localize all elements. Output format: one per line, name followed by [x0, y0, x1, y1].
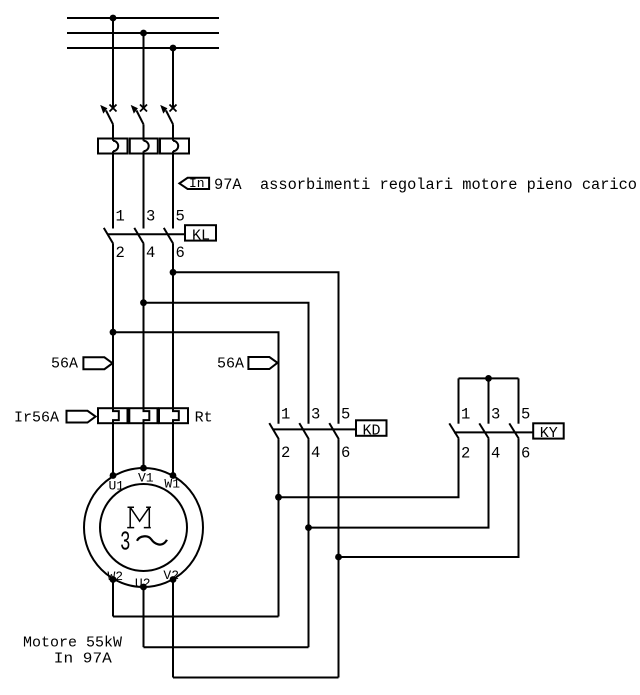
svg-text:1: 1 — [116, 208, 125, 226]
svg-text:4: 4 — [311, 444, 320, 462]
label Ir56A pointer — [14, 410, 96, 427]
contactor KL pole 2 — [134, 228, 144, 408]
disconnector QS pole 2 — [131, 105, 147, 139]
node tap L2 — [140, 30, 147, 37]
pin labels KL bottom — [116, 244, 185, 262]
wire U2 to KD pole2 bottom — [144, 646, 309, 648]
svg-text:5: 5 — [341, 406, 350, 424]
contactor KY pole 1 — [279, 378, 459, 497]
wire W2 to KD pole1 bottom — [113, 616, 279, 618]
svg-text:6: 6 — [341, 444, 350, 462]
svg-text:Rt: Rt — [195, 410, 213, 427]
svg-text:4: 4 — [491, 445, 500, 463]
motor tilde — [137, 536, 167, 544]
svg-text:Motore 55kW: Motore 55kW — [23, 634, 122, 651]
pin labels KD bottom — [281, 444, 350, 462]
motor M inner circle — [100, 484, 187, 571]
svg-text:In 97A: In 97A — [54, 651, 112, 668]
svg-text:6: 6 — [521, 445, 530, 463]
bus line L1 — [67, 17, 219, 19]
wire fuse3 to KL5 — [172, 154, 174, 229]
node junction wire1 to KD — [110, 329, 117, 336]
label 56A mid pointer — [217, 355, 278, 372]
svg-text:6: 6 — [176, 244, 185, 262]
node terminal W1 — [170, 472, 177, 479]
wire Rt3 to motor W1 — [172, 423, 174, 476]
fuse-switch FU pole 2 — [130, 139, 158, 154]
contactor KD pole 1 — [269, 423, 279, 616]
contactor KD pole 2 — [299, 423, 309, 647]
contactor KL pole 3 — [164, 228, 174, 408]
svg-text:56A: 56A — [217, 355, 244, 372]
disconnector QS pole 3 — [160, 105, 176, 139]
svg-text:3: 3 — [491, 406, 500, 424]
svg-text:4: 4 — [146, 244, 155, 262]
wire U2 down — [143, 587, 145, 647]
wire L2 drop — [143, 33, 145, 108]
pin labels KL top — [116, 208, 185, 226]
contactor KY pole 3 — [339, 378, 519, 557]
contactor KL coil box — [185, 225, 216, 244]
fuse-switch FU pole 1 — [98, 139, 128, 154]
node tap L1 — [110, 15, 117, 22]
thermal relay Rt pole 3 — [159, 408, 188, 423]
contactor KD coil box — [356, 420, 387, 439]
svg-text:Ir56A: Ir56A — [14, 410, 59, 427]
node terminal V1 — [140, 465, 147, 472]
pin labels KY bottom — [461, 445, 530, 463]
contactor KY linkage — [454, 431, 533, 433]
node terminal U1 — [110, 472, 117, 479]
node tap L3 — [170, 45, 177, 52]
contactor KD linkage — [273, 428, 356, 430]
wire L1 drop — [112, 18, 114, 108]
pin labels KD top — [281, 406, 350, 424]
svg-text:V1: V1 — [138, 471, 154, 486]
node KY star point — [485, 375, 492, 382]
svg-text:3: 3 — [311, 406, 320, 424]
contactor KL pole 1 — [104, 228, 114, 408]
svg-text:U1: U1 — [109, 478, 125, 493]
svg-text:KY: KY — [540, 425, 558, 442]
node KD pole3 star tap — [335, 554, 342, 561]
bus line L2 — [67, 32, 219, 34]
svg-text:3: 3 — [146, 208, 155, 226]
disconnector QS pole 1 — [100, 105, 116, 139]
node terminal U2 — [140, 584, 147, 591]
svg-text:2: 2 — [281, 444, 290, 462]
wire junction3 to KD pole3 — [173, 272, 339, 423]
node KD pole2 star tap — [305, 524, 312, 531]
pin labels KY top — [461, 406, 530, 424]
wire KY bar — [459, 377, 519, 379]
node junction wire2 to KD — [140, 299, 147, 306]
node terminal W2 — [110, 576, 117, 583]
bus line L3 — [67, 47, 219, 49]
svg-text:1: 1 — [461, 406, 470, 424]
contactor KY coil box — [533, 423, 564, 442]
wire Rt1 to motor U1 — [112, 423, 114, 476]
motor letter M — [127, 507, 151, 527]
node junction wire3 to KD — [170, 269, 177, 276]
svg-text:2: 2 — [116, 244, 125, 262]
svg-text:5: 5 — [176, 208, 185, 226]
svg-text:KD: KD — [363, 422, 381, 439]
svg-text:In: In — [189, 176, 205, 191]
node KD pole1 star tap — [275, 494, 282, 501]
node terminal V2 — [170, 576, 177, 583]
motor M outer circle — [84, 468, 203, 587]
wire L3 drop — [172, 48, 174, 108]
contactor KY pole 2 — [309, 378, 489, 527]
wire V2 down — [172, 580, 174, 678]
contactor KL linkage — [108, 233, 186, 235]
wire junction2 to KD pole2 — [144, 303, 309, 424]
contactor KD pole 3 — [329, 423, 339, 677]
svg-text:3: 3 — [120, 528, 131, 558]
svg-text:W2: W2 — [108, 569, 124, 584]
thermal relay Rt pole 2 — [129, 408, 157, 423]
svg-text:5: 5 — [521, 406, 530, 424]
wire V2 to KD pole3 bottom — [173, 677, 339, 679]
svg-text:1: 1 — [281, 406, 290, 424]
wire fuse1 to KL1 — [112, 154, 114, 229]
label 56A left pointer — [51, 355, 113, 372]
fuse-switch FU pole 3 — [160, 139, 189, 154]
svg-text:V2: V2 — [163, 568, 179, 583]
thermal relay Rt pole 1 — [98, 408, 128, 423]
wire W2 down — [112, 580, 114, 617]
svg-text:KL: KL — [192, 228, 210, 245]
svg-text:2: 2 — [461, 445, 470, 463]
wire junction1 to KD pole1 — [113, 332, 279, 424]
svg-text:97A assorbimenti regolari mot: 97A assorbimenti regolari motore pieno c… — [214, 176, 637, 194]
svg-text:56A: 56A — [51, 355, 78, 372]
wire Rt2 to motor V1 — [143, 423, 145, 468]
label In pointer — [179, 176, 209, 191]
wire fuse2 to KL3 — [143, 154, 145, 229]
svg-text:W1: W1 — [164, 476, 180, 491]
